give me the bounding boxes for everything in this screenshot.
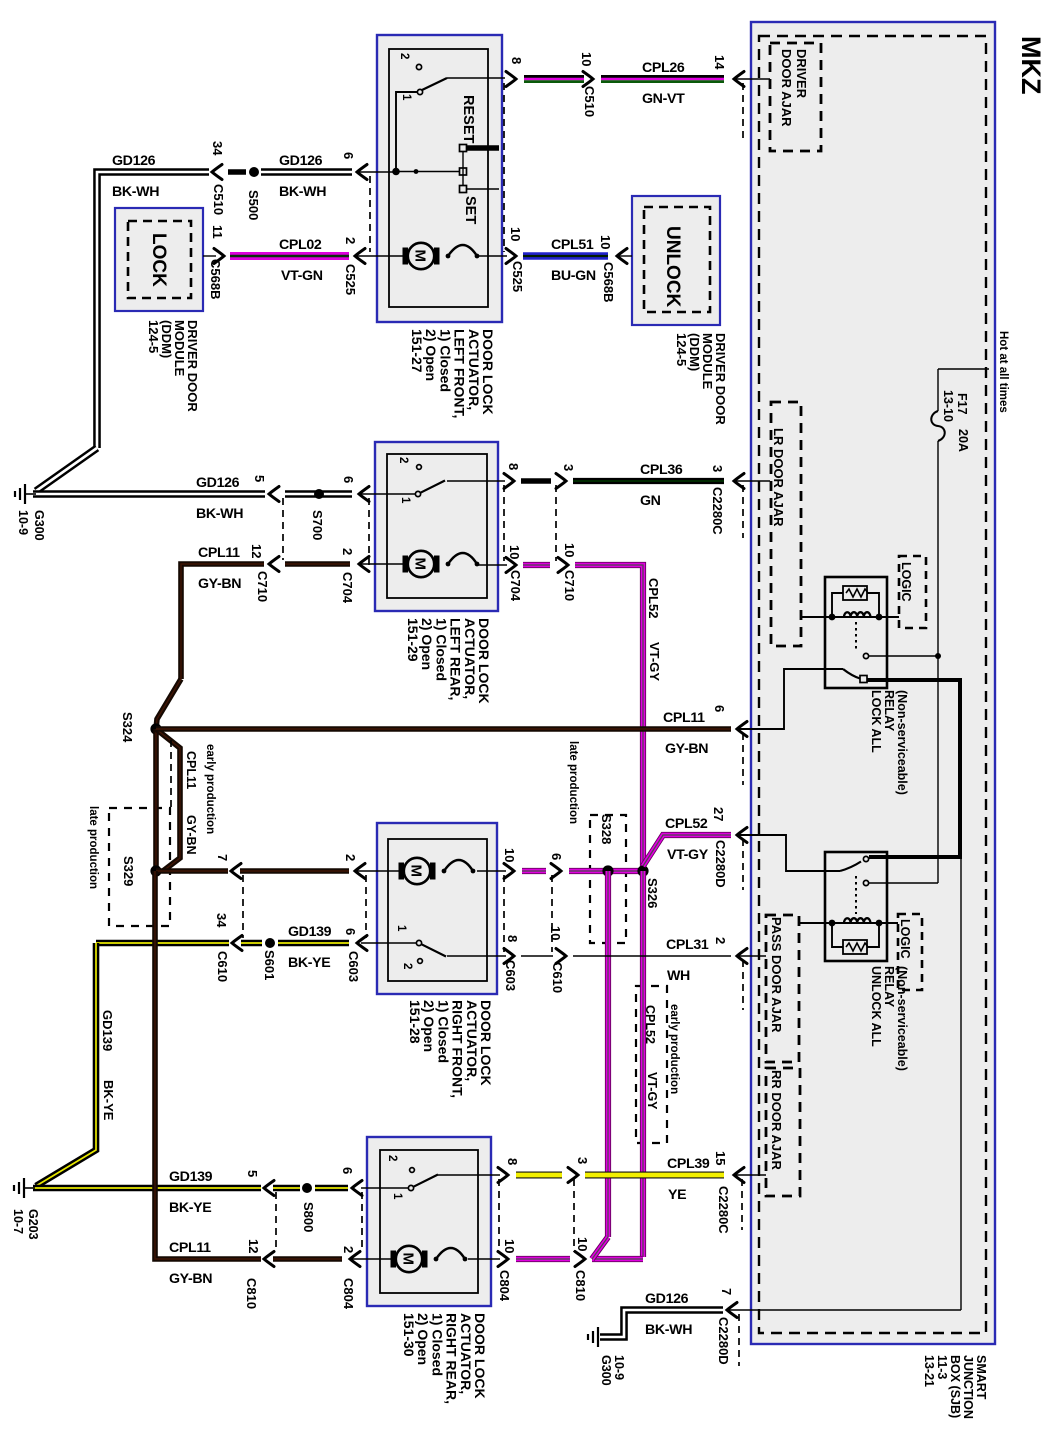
svg-text:M: M [412, 250, 429, 263]
svg-text:151-29: 151-29 [405, 618, 421, 662]
svg-text:11: 11 [210, 225, 225, 239]
svg-text:151-27: 151-27 [409, 329, 425, 373]
svg-text:G300: G300 [32, 510, 46, 541]
svg-text:C525: C525 [510, 261, 525, 292]
svg-text:6: 6 [712, 705, 727, 712]
svg-text:7: 7 [215, 854, 230, 861]
svg-text:2: 2 [341, 1246, 356, 1253]
svg-text:10: 10 [508, 227, 523, 241]
svg-text:S326: S326 [645, 878, 660, 908]
svg-text:LOGIC: LOGIC [898, 919, 912, 959]
svg-text:GN: GN [640, 493, 661, 509]
svg-text:VT-GN: VT-GN [281, 268, 323, 284]
svg-text:CPL02: CPL02 [279, 237, 322, 253]
svg-text:CPL11: CPL11 [184, 751, 198, 789]
svg-text:10: 10 [502, 848, 517, 862]
svg-text:10: 10 [502, 1239, 517, 1253]
svg-text:RELAY: RELAY [882, 690, 896, 732]
svg-text:S328: S328 [599, 814, 614, 844]
svg-text:C568B: C568B [208, 259, 223, 299]
svg-text:5: 5 [252, 475, 267, 482]
svg-text:10: 10 [562, 543, 577, 557]
svg-text:C2280D: C2280D [716, 1317, 731, 1365]
svg-text:151-28: 151-28 [407, 1000, 423, 1044]
svg-text:WH: WH [667, 968, 690, 984]
svg-text:UNLOCK ALL: UNLOCK ALL [869, 966, 883, 1047]
svg-text:6: 6 [341, 152, 356, 159]
svg-text:LR DOOR AJAR: LR DOOR AJAR [771, 428, 786, 527]
svg-text:8: 8 [505, 1158, 520, 1165]
svg-text:S329: S329 [121, 856, 136, 886]
svg-text:C804: C804 [341, 1278, 356, 1310]
svg-text:2: 2 [401, 963, 413, 969]
svg-text:1: 1 [400, 94, 412, 101]
svg-text:YE: YE [668, 1187, 686, 1203]
svg-text:11-3: 11-3 [935, 1355, 949, 1379]
svg-text:BK-WH: BK-WH [112, 184, 159, 200]
svg-text:M: M [408, 865, 425, 878]
svg-text:VT-GY: VT-GY [645, 1072, 659, 1110]
svg-text:DRIVER: DRIVER [794, 49, 809, 99]
svg-text:C603: C603 [346, 951, 361, 982]
svg-text:15: 15 [713, 1151, 728, 1165]
svg-text:124-5: 124-5 [146, 320, 161, 353]
svg-text:GY-BN: GY-BN [198, 576, 241, 592]
svg-text:10: 10 [548, 926, 563, 940]
svg-text:13-21: 13-21 [922, 1355, 936, 1387]
svg-text:5: 5 [245, 1170, 260, 1177]
svg-text:GD139: GD139 [288, 924, 332, 940]
svg-text:late production: late production [87, 806, 99, 889]
svg-text:2: 2 [340, 548, 355, 555]
svg-text:6: 6 [341, 476, 356, 483]
svg-text:LOCK: LOCK [148, 233, 169, 287]
svg-text:2: 2 [343, 237, 358, 244]
svg-text:14: 14 [712, 55, 727, 70]
svg-text:MKZ: MKZ [1016, 36, 1046, 94]
svg-text:Hot at all times: Hot at all times [997, 331, 1009, 413]
svg-text:10: 10 [507, 545, 522, 559]
svg-text:JUNCTION: JUNCTION [961, 1355, 975, 1419]
svg-text:S500: S500 [246, 190, 261, 220]
svg-text:CPL52: CPL52 [665, 816, 708, 832]
svg-text:BK-WH: BK-WH [645, 1322, 692, 1338]
svg-text:RELAY: RELAY [882, 966, 896, 1008]
svg-text:(Non-serviceable): (Non-serviceable) [895, 690, 909, 795]
svg-text:RR DOOR AJAR: RR DOOR AJAR [769, 1070, 784, 1171]
svg-text:GD126: GD126 [279, 153, 323, 169]
svg-text:BK-WH: BK-WH [279, 184, 326, 200]
svg-text:GD126: GD126 [196, 475, 240, 491]
svg-text:SMART: SMART [974, 1355, 988, 1400]
svg-text:C610: C610 [215, 951, 230, 982]
svg-text:GD126: GD126 [112, 153, 156, 169]
svg-text:151-30: 151-30 [401, 1313, 417, 1357]
svg-text:8: 8 [509, 57, 524, 64]
svg-text:GY-BN: GY-BN [665, 741, 708, 757]
svg-text:GD126: GD126 [645, 1291, 689, 1307]
svg-text:C603: C603 [503, 960, 518, 991]
svg-text:2: 2 [713, 937, 728, 944]
svg-text:CPL52: CPL52 [646, 578, 661, 618]
svg-text:GY-BN: GY-BN [169, 1271, 212, 1287]
svg-text:1: 1 [391, 1193, 403, 1200]
svg-text:3: 3 [575, 1157, 590, 1164]
svg-text:124-5: 124-5 [674, 333, 689, 366]
svg-text:C510: C510 [211, 184, 226, 215]
svg-text:6: 6 [549, 853, 564, 860]
svg-text:PASS DOOR AJAR: PASS DOOR AJAR [769, 917, 784, 1033]
svg-text:C2280C: C2280C [710, 487, 725, 535]
svg-text:M: M [412, 558, 429, 571]
svg-text:S700: S700 [310, 510, 325, 540]
svg-text:1: 1 [395, 925, 407, 932]
svg-text:DOOR AJAR: DOOR AJAR [779, 49, 794, 127]
svg-text:2: 2 [386, 1155, 398, 1161]
svg-text:S324: S324 [120, 712, 135, 743]
svg-text:10-7: 10-7 [11, 1209, 25, 1234]
svg-text:10-9: 10-9 [612, 1355, 626, 1380]
svg-text:LOGIC: LOGIC [899, 562, 913, 602]
svg-text:CPL11: CPL11 [169, 1240, 211, 1256]
svg-text:CPL39: CPL39 [667, 1156, 710, 1172]
svg-text:13-10: 13-10 [941, 390, 955, 422]
svg-text:BK-YE: BK-YE [288, 955, 330, 971]
svg-text:BK-WH: BK-WH [196, 506, 243, 522]
svg-text:C510: C510 [582, 86, 597, 117]
svg-text:early production: early production [668, 1004, 680, 1094]
svg-text:10: 10 [575, 1237, 590, 1251]
svg-text:GN-VT: GN-VT [642, 91, 685, 107]
svg-text:3: 3 [710, 465, 725, 472]
svg-text:C2280D: C2280D [713, 840, 728, 888]
svg-text:C525: C525 [343, 264, 358, 295]
svg-text:CPL31: CPL31 [666, 937, 709, 953]
svg-text:early production: early production [204, 744, 216, 834]
svg-text:34: 34 [210, 141, 225, 156]
svg-text:C610: C610 [550, 962, 565, 993]
svg-text:SET: SET [462, 196, 478, 224]
svg-text:RESET: RESET [460, 95, 476, 143]
svg-text:C804: C804 [497, 1270, 512, 1302]
svg-text:LOCK ALL: LOCK ALL [869, 690, 883, 753]
svg-text:C704: C704 [340, 572, 355, 604]
svg-text:3: 3 [561, 464, 576, 471]
svg-text:GD139: GD139 [169, 1169, 213, 1185]
svg-text:C810: C810 [244, 1278, 259, 1309]
svg-text:BOX (SJB): BOX (SJB) [948, 1355, 962, 1418]
svg-text:CPL26: CPL26 [642, 60, 685, 76]
svg-text:CPL51: CPL51 [551, 237, 594, 253]
svg-text:27: 27 [711, 807, 726, 821]
svg-text:12: 12 [246, 1239, 261, 1253]
svg-text:10: 10 [598, 235, 613, 249]
svg-text:G300: G300 [599, 1355, 613, 1386]
svg-text:F17: F17 [955, 393, 969, 415]
svg-text:8: 8 [505, 935, 520, 942]
svg-text:GY-BN: GY-BN [184, 815, 198, 855]
svg-text:8: 8 [506, 463, 521, 470]
svg-text:C810: C810 [573, 1270, 588, 1301]
svg-text:2: 2 [343, 854, 358, 861]
svg-text:BK-YE: BK-YE [101, 1080, 116, 1121]
svg-text:C568B: C568B [601, 262, 616, 302]
svg-text:S800: S800 [301, 1202, 316, 1232]
svg-text:12: 12 [249, 544, 264, 558]
svg-text:2: 2 [398, 53, 410, 59]
svg-text:20A: 20A [956, 429, 970, 452]
svg-text:VT-GY: VT-GY [667, 847, 709, 863]
svg-text:BU-GN: BU-GN [551, 268, 596, 284]
svg-text:G203: G203 [26, 1209, 40, 1240]
svg-text:CPL52: CPL52 [643, 1005, 657, 1044]
svg-text:CPL36: CPL36 [640, 462, 683, 478]
svg-text:10: 10 [579, 52, 594, 66]
svg-text:C710: C710 [562, 570, 577, 601]
svg-text:CPL11: CPL11 [663, 710, 705, 726]
svg-text:UNLOCK: UNLOCK [662, 226, 683, 308]
svg-text:C704: C704 [508, 570, 523, 602]
svg-text:34: 34 [214, 913, 229, 928]
svg-text:(Non-serviceable): (Non-serviceable) [895, 966, 909, 1071]
svg-text:GD139: GD139 [100, 1010, 115, 1051]
svg-text:1: 1 [399, 497, 411, 504]
svg-text:late production: late production [567, 741, 579, 824]
svg-text:S601: S601 [262, 950, 277, 980]
svg-text:10-9: 10-9 [16, 510, 30, 535]
svg-text:VT-GY: VT-GY [647, 642, 662, 681]
svg-text:2: 2 [397, 457, 409, 463]
svg-text:BK-YE: BK-YE [169, 1200, 211, 1216]
svg-text:CPL11: CPL11 [198, 545, 240, 561]
svg-text:C710: C710 [255, 571, 270, 602]
svg-text:6: 6 [343, 928, 358, 935]
svg-text:7: 7 [719, 1288, 734, 1295]
svg-text:6: 6 [340, 1167, 355, 1174]
svg-text:C2280C: C2280C [716, 1186, 731, 1234]
svg-text:M: M [400, 1253, 417, 1266]
